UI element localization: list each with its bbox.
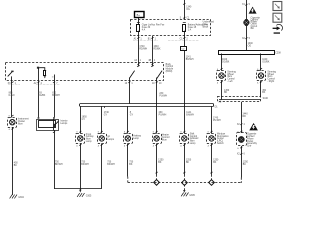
accessory bus bar	[219, 51, 275, 55]
wire lamp L9 down, net 1250	[210, 144, 212, 180]
wire BCM Q2 output to illumination bus, net 230	[156, 80, 158, 106]
svg-text:Illum: Illum	[162, 139, 167, 141]
wire bus to lamp L5, net 1740	[101, 106, 103, 133]
lamp L8 name	[190, 132, 199, 145]
wire bus to lamp L4, net 1850	[80, 106, 82, 133]
lamp L3 steering wheel illum right	[257, 68, 266, 84]
wire bus to lamp L6, net 8	[127, 106, 129, 133]
splice diamond S3	[209, 180, 215, 186]
wire from top to circuit breaker CB1, net 140	[246, 0, 248, 19]
wire lighter to ground bus, net 1250	[241, 146, 243, 178]
svg-text:BK/WH: BK/WH	[81, 164, 89, 166]
wire label 812	[52, 93, 60, 97]
svg-text:RD/BK: RD/BK	[154, 48, 161, 50]
svg-text:1 A: 1 A	[188, 28, 192, 31]
ground G305 under splice	[181, 190, 195, 197]
nav icon return arrow	[273, 24, 283, 33]
lamp L3 name	[267, 70, 276, 83]
wire label 493	[38, 93, 46, 97]
wire label 750 BK/WH c	[107, 162, 115, 166]
dome lamp relay K1 box	[37, 117, 59, 130]
fuse F1 CIG LTR 20A	[137, 23, 140, 37]
wire label 1740	[104, 112, 110, 116]
wire label 1440 RD	[243, 113, 249, 117]
wire label 1250 BK b	[186, 159, 192, 163]
wire label 1040 OG/BK b	[262, 59, 270, 63]
svg-text:Lamp: Lamp	[133, 138, 139, 140]
nav icon square 2	[273, 13, 282, 22]
BCM internal wire from node	[38, 68, 40, 81]
svg-text:B+: B+	[137, 13, 141, 17]
svg-text:- Left: - Left	[227, 80, 233, 83]
underhood fuse block dashed box	[131, 20, 211, 36]
wire label 750 BK/WH b	[81, 162, 89, 166]
BCM internal fuse F3	[43, 71, 46, 76]
svg-text:4 A: 4 A	[142, 28, 146, 31]
wire lamp L6 down, net 750	[127, 144, 129, 177]
lamp L9 window switch illum	[207, 131, 216, 147]
svg-text:Cntr: Cntr	[247, 145, 252, 148]
wire bus to lamp L9, net 1740	[211, 106, 213, 133]
body control module BCM dashed box	[6, 63, 164, 81]
svg-text:BN/WH: BN/WH	[52, 95, 60, 97]
wire L1 to ground G304, net 450	[12, 127, 14, 195]
wire label 230	[159, 112, 167, 116]
lamp L2 steering wheel illum left	[217, 68, 226, 84]
BCM driver switch Q2	[151, 65, 162, 80]
svg-text:OG/BK: OG/BK	[38, 95, 46, 97]
underhood fuse block name label	[203, 21, 215, 29]
lamp L5 name	[107, 137, 115, 141]
bottom ground bus wire	[54, 188, 102, 190]
wire label 1250 BK a	[158, 159, 164, 163]
svg-text:Lamps: Lamps	[107, 139, 115, 141]
warning triangle note 1	[249, 7, 257, 14]
svg-text:OG/BK: OG/BK	[262, 62, 270, 64]
wire label 1040 OG	[248, 43, 254, 47]
wire label 450 BK	[14, 163, 19, 167]
BCM bottom pin ticks	[8, 82, 163, 85]
splice pack S440 dashed box	[218, 97, 261, 102]
wire label 8 GY	[130, 112, 134, 116]
wire label 1250 BK c	[213, 159, 219, 163]
svg-text:BK: BK	[224, 92, 228, 94]
wire BCM pin 7 to relay box, net 812	[54, 80, 56, 117]
left lamp L1 dimmer illum	[8, 115, 17, 131]
svg-text:BK: BK	[243, 164, 247, 166]
fuse block connector pins A1 B1	[134, 37, 189, 40]
svg-text:Lamp: Lamp	[86, 141, 92, 143]
cigarette lighter E1	[237, 131, 247, 150]
wire bar to lamp L2, net 1040	[221, 54, 223, 71]
svg-text:BK: BK	[262, 92, 266, 94]
svg-text:GY: GY	[130, 115, 134, 117]
lamp L1 name	[18, 118, 29, 126]
nav icon square 1	[273, 2, 282, 11]
ground G304	[10, 195, 25, 199]
svg-text:BK: BK	[14, 165, 18, 167]
warning triangle note 2	[249, 123, 258, 130]
bus drop tick	[104, 106, 106, 108]
svg-text:BK: BK	[213, 162, 217, 164]
lamp L6 ashtray	[124, 131, 133, 147]
BCM internal arrow below fuse	[44, 76, 46, 78]
wire L3 to splice box, net 450	[260, 81, 262, 97]
lamp L9 name	[217, 133, 229, 145]
fuse F1 value label	[142, 24, 165, 32]
BCM internal node dot	[37, 67, 39, 69]
bus pin labels right end	[215, 102, 222, 109]
lamp L2 name	[227, 70, 236, 83]
svg-text:BK: BK	[186, 162, 190, 164]
wire label 230 PU/WH	[159, 93, 167, 97]
svg-text:Lamps: Lamps	[60, 123, 68, 125]
wire BCM to left lamp, net 805	[11, 80, 13, 117]
svg-text:PU/WH: PU/WH	[159, 115, 167, 117]
wire BCM pin A2 to relay box, net 493	[38, 80, 40, 117]
wire lamp L5 to bottom bus, net 750	[101, 144, 103, 189]
svg-text:Block: Block	[203, 26, 209, 28]
lamp L7 heater control	[153, 131, 162, 147]
svg-text:C208: C208	[275, 52, 281, 54]
bus left end vertical	[79, 104, 81, 107]
wire label 1640	[154, 46, 161, 50]
wire label 1141 BN/WH	[186, 56, 194, 60]
BCM connector dotted grouping lines	[8, 84, 20, 86]
wire BCM Q1 output to illumination bus	[129, 80, 131, 104]
wire label 750 BK/WH	[55, 162, 63, 166]
dashed drop diamond S2 to ground	[184, 184, 186, 190]
bus right end vertical	[213, 104, 215, 107]
splice diamond S2	[182, 180, 188, 186]
svg-text:G305: G305	[189, 195, 195, 197]
pin labels at fuse block entry	[180, 17, 190, 20]
wire relay K1 to bottom bus, net 750	[54, 130, 56, 189]
svg-text:Illum: Illum	[18, 123, 23, 125]
wire label 1740	[139, 46, 147, 50]
wire bar to lamp L3, net 1040	[260, 54, 262, 71]
wire label 1340 OG	[186, 6, 192, 10]
svg-text:S440: S440	[263, 98, 269, 100]
wire label 1850	[82, 116, 88, 120]
pin tick X2 b	[237, 124, 246, 126]
pin tick X1	[242, 4, 251, 6]
lamp L4 name	[86, 133, 95, 143]
ground G305 symbol	[77, 193, 92, 197]
svg-text:BN/WH: BN/WH	[186, 115, 194, 117]
svg-text:BK/WH: BK/WH	[107, 164, 115, 166]
wire bus to lamp L7, net 230	[156, 106, 158, 133]
wire label 1141 lower	[186, 112, 194, 116]
BCM pin tick 4B	[151, 63, 153, 65]
wire from top into fuse F2, net 1340	[184, 0, 186, 20]
illumination bus lower line	[80, 106, 214, 108]
wire L2 to splice box, net 1450	[221, 81, 223, 100]
svg-text:10: 10	[52, 77, 54, 79]
BCM interior dimmer switch SW1	[8, 71, 14, 81]
wire B+ to fuse F1	[138, 18, 140, 25]
lamp L6 name	[133, 134, 142, 139]
battery feed label box B+	[135, 12, 145, 18]
svg-text:BK: BK	[158, 162, 162, 164]
wire net 1340 down to lamp column	[184, 50, 186, 133]
inline connector C2 on net 1340	[181, 36, 187, 51]
connector grouping dotted line right	[168, 40, 199, 42]
svg-text:PU/WH: PU/WH	[159, 95, 167, 97]
wire lamp L4 to bottom bus, net 750	[80, 144, 82, 189]
wire lamp L8 down, net 1250	[183, 144, 185, 180]
svg-text:BN/WH: BN/WH	[186, 59, 194, 61]
lamp L7 name	[162, 134, 170, 142]
illumination bus upper line	[80, 103, 214, 105]
wire label 450 BK b	[262, 90, 267, 94]
BCM pin tick A4	[137, 63, 139, 65]
ground G305 drop arrow	[79, 190, 81, 193]
svg-text:4B: 4B	[148, 60, 151, 62]
BCM pin labels top	[134, 59, 156, 62]
BCM driver switch Q1	[129, 65, 140, 80]
wire label 750 BK d	[129, 162, 134, 166]
circuit breaker CB1	[244, 20, 250, 26]
pin tick top wire	[183, 3, 185, 4]
svg-text:OG: OG	[248, 46, 252, 48]
wire fuse F1 out to BCM pin, net 1740	[138, 36, 140, 62]
svg-text:G304: G304	[18, 197, 24, 199]
svg-text:OG: OG	[186, 9, 190, 11]
wire label 1040 OG/BK a	[222, 59, 230, 63]
relay K1 name	[60, 119, 68, 124]
lamp L8 shift indicator	[180, 131, 189, 147]
svg-text:BK/WH: BK/WH	[55, 164, 63, 166]
svg-text:OG/BK: OG/BK	[222, 62, 230, 64]
svg-text:Switch: Switch	[217, 142, 224, 145]
fuse F2 value label	[188, 24, 209, 32]
wire label 1250 BK d	[243, 161, 249, 165]
pin tick X2	[242, 38, 251, 40]
svg-text:- Right: - Right	[267, 80, 274, 83]
wire label 1450 BK a	[224, 90, 230, 94]
BCM internal wire from pin 4B	[152, 62, 154, 66]
circuit breaker CB1 name	[251, 16, 261, 30]
svg-text:RD/WH: RD/WH	[139, 48, 147, 50]
svg-text:GY: GY	[82, 119, 86, 121]
svg-text:Lamp: Lamp	[190, 143, 196, 145]
svg-text:BK: BK	[129, 164, 133, 166]
svg-text:(BCM): (BCM)	[166, 71, 173, 73]
svg-text:GY: GY	[104, 115, 108, 117]
dashed corner lighter to ground bus	[240, 178, 243, 183]
svg-text:D-GN: D-GN	[9, 95, 15, 97]
svg-text:PU/WH: PU/WH	[213, 120, 221, 122]
dashed ground bus	[128, 182, 241, 184]
wire label 1740 right	[213, 118, 221, 122]
BCM name label	[166, 64, 174, 73]
svg-text:RD: RD	[243, 116, 247, 118]
wire CB1 to fuse panel bar	[246, 26, 248, 50]
wire fuse block to BCM pin, net 1640	[152, 36, 154, 62]
dashed drop from L6 to ground bus	[127, 177, 129, 183]
relay K1 output pin tick	[53, 131, 55, 132]
fuse F2 ASHTRAY 15A	[183, 23, 186, 37]
splice diamond S1	[154, 180, 160, 186]
wire lamp L7 down, net 1250	[156, 144, 158, 180]
lighter E1 name	[247, 133, 258, 148]
lamp L4 ashtray lamp	[76, 131, 85, 147]
BCM internal link wire	[39, 68, 45, 71]
BCM internal wire from pin A4	[138, 62, 140, 66]
lamp L5 IP lamps	[98, 131, 107, 147]
svg-text:Bkr: Bkr	[251, 27, 255, 30]
svg-text:G305: G305	[86, 195, 92, 197]
pin tick X2 c	[237, 153, 246, 155]
wire label 805 D-GN	[9, 93, 15, 97]
connector grouping dotted line	[133, 40, 158, 42]
BCM internal wire pin 54	[54, 75, 56, 81]
wire splice to lighter, net 1440	[241, 102, 243, 133]
